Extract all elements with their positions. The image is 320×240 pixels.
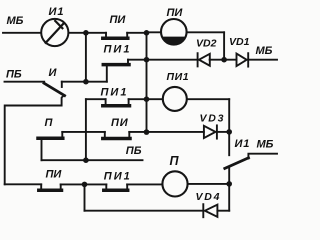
wire И blade tail to left bus xyxy=(5,95,64,184)
diode VD2 (pointing left) xyxy=(198,53,210,66)
wire VD2 to junction xyxy=(210,59,237,61)
wire VD1 to МБ right xyxy=(248,59,277,61)
junction on bus B top (147,33) xyxy=(144,30,150,36)
contact ПИ1 (second) wire to bus B xyxy=(128,59,147,61)
junction diode row (224,60) xyxy=(221,57,227,63)
junction bus B diode row xyxy=(144,57,150,63)
svg-text:VD2: VD2 xyxy=(196,38,217,50)
wire ПБ stub row xyxy=(42,159,143,161)
wire bus B to relay ПИ xyxy=(147,31,162,33)
contact И1 (knife) xyxy=(225,158,249,169)
svg-text:П: П xyxy=(45,117,54,129)
svg-text:VD4: VD4 xyxy=(196,191,222,203)
junction node (86,82) xyxy=(83,79,89,85)
lamp И1 xyxy=(41,19,68,46)
svg-text:ПБ: ПБ xyxy=(126,145,142,157)
junction (229,132) xyxy=(226,129,232,135)
wire diode row left xyxy=(147,59,198,61)
wire corner down to VD3 row xyxy=(228,99,230,132)
contact ПИ (fourth) xyxy=(103,132,130,139)
svg-text:ПИ1: ПИ1 xyxy=(104,43,132,55)
wire И1 blade to МБ right xyxy=(248,154,277,159)
wire relay П to right vertical xyxy=(188,183,229,185)
svg-text:И1: И1 xyxy=(49,6,65,18)
junction bus B (146,99) xyxy=(144,96,150,102)
contact П xyxy=(38,132,63,138)
junction node A (86,33) xyxy=(83,30,89,36)
svg-text:ПИ1: ПИ1 xyxy=(167,71,190,83)
svg-text:МБ: МБ xyxy=(257,139,274,151)
svg-text:VD3: VD3 xyxy=(200,113,226,125)
contact И (knife) xyxy=(44,82,65,96)
junction bus B bottom (146,132) xyxy=(144,129,150,135)
wire vertical x86 down to ПБ stub row xyxy=(85,99,87,160)
svg-text:МБ: МБ xyxy=(256,45,273,57)
wire contact to bus B xyxy=(129,98,163,100)
wire VD4 row xyxy=(85,210,204,212)
wire bottom row from left bus xyxy=(5,183,42,185)
wire junction down to VD4 row xyxy=(84,184,86,210)
wire contact ПИ1 to relay П xyxy=(127,183,162,185)
contact ПИ1 (bottom) xyxy=(104,184,128,190)
wire И to node A lower xyxy=(62,81,107,83)
svg-text:ПИ1: ПИ1 xyxy=(101,87,129,99)
svg-text:ПИ: ПИ xyxy=(110,14,127,26)
diode VD3 (pointing right) xyxy=(204,125,217,138)
vertical bus B (x=146.5) xyxy=(146,33,148,132)
relay П (circle) xyxy=(162,171,187,196)
wire contact ПИ to bus B xyxy=(129,131,146,133)
svg-text:ПИ: ПИ xyxy=(111,117,129,129)
contact ПИ (top row) xyxy=(103,33,128,39)
svg-text:МБ: МБ xyxy=(7,15,24,27)
contact ПИ (bottom) xyxy=(39,184,62,190)
svg-text:ПИ: ПИ xyxy=(167,7,184,19)
svg-text:ПИ1: ПИ1 xyxy=(104,171,132,183)
wire VD4 to right vertical xyxy=(217,210,229,212)
wire П row xyxy=(62,131,105,133)
wire VD3 row xyxy=(147,131,204,133)
relay ПИ1 (circle) xyxy=(163,87,187,111)
diode VD4 (pointing left) xyxy=(203,204,217,217)
svg-text:ПИ: ПИ xyxy=(46,169,63,181)
wire contact ПИ to junction xyxy=(61,183,107,185)
svg-text:И1: И1 xyxy=(235,138,251,150)
wire lamp И1 to node A xyxy=(69,32,107,34)
contact ПИ1 (second) xyxy=(103,60,129,82)
wire ПБ xyxy=(5,81,45,83)
diode VD1 (pointing right) xyxy=(237,53,249,66)
contact ПИ1 (third) xyxy=(103,99,130,106)
relay ПИ (half-filled circle) xyxy=(161,19,187,45)
wire VD3 to junction xyxy=(217,131,229,133)
wire И1 down through П row to VD4 row xyxy=(228,167,230,211)
wire contact ПИ to bus B xyxy=(127,32,146,34)
svg-text:И: И xyxy=(49,67,58,79)
wire junction down to contact И1 stub xyxy=(228,132,230,155)
wire relay ПИ1 to corner xyxy=(187,98,229,100)
wire relay ПИ to corner xyxy=(187,31,224,33)
wire node A down to row ПБ xyxy=(85,33,87,82)
wire МБ to lamp И1 xyxy=(3,32,41,34)
svg-text:VD1: VD1 xyxy=(229,36,250,48)
wire П contact bar down to ПБ stub row xyxy=(41,139,43,160)
svg-text:ПБ: ПБ xyxy=(6,68,22,80)
junction (229,184) xyxy=(226,181,232,187)
wire corner to contact ПИ1 (third) xyxy=(86,98,106,100)
svg-text:П: П xyxy=(170,154,180,168)
junction (86,160) xyxy=(83,157,89,163)
wire corner down to diode row xyxy=(223,32,225,59)
junction (84.5,184.5) xyxy=(82,182,88,188)
